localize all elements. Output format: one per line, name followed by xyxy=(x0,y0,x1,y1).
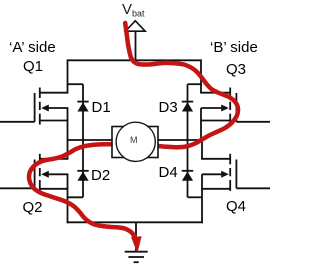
label D2 xyxy=(91,167,110,184)
current path arrowhead (red) xyxy=(131,236,142,253)
Vbat arrow head xyxy=(125,21,145,31)
label M (motor) xyxy=(130,135,138,145)
label D1 xyxy=(92,99,111,116)
wire Q3 source vertical / node B xyxy=(200,108,202,140)
wire Q1 source line xyxy=(40,120,69,122)
label Q2 xyxy=(23,199,43,216)
wire Q3 source line xyxy=(200,120,230,122)
wire D4 bottom stub xyxy=(188,196,203,198)
wire Vbat arrow shaft xyxy=(135,31,137,60)
transistor Q2 xyxy=(0,154,49,191)
label D3 xyxy=(159,99,178,116)
wire Q2 drain line xyxy=(40,158,69,160)
current path (red highlight) xyxy=(29,23,238,239)
label 'B' side xyxy=(210,39,258,56)
wire D4 vertical xyxy=(187,140,189,197)
diode D3 xyxy=(182,102,193,112)
wire bottom rail (source net) xyxy=(67,221,203,223)
wire D1 top stub xyxy=(68,83,84,85)
wire Q4 drain vertical xyxy=(201,139,203,159)
ground xyxy=(125,252,148,263)
label Q3 xyxy=(226,61,246,78)
wire Q2 source line xyxy=(40,188,69,190)
wire Q3 arrow line xyxy=(201,107,223,109)
wire Q4 source line xyxy=(201,188,230,190)
label Q1 xyxy=(23,58,43,75)
wire ground drop xyxy=(135,222,137,251)
wire Q3 drain line xyxy=(200,92,230,94)
label 'A' side xyxy=(9,39,56,56)
wire Q1 source vertical / node A out xyxy=(67,108,69,140)
wire Q1 drain line xyxy=(40,92,69,94)
diode D4 xyxy=(182,171,193,181)
wire Q4 arrow line xyxy=(202,173,223,175)
wire Q2 source vertical to bottom rail xyxy=(67,174,69,223)
label D4 xyxy=(159,164,178,181)
label Vbat xyxy=(122,1,145,19)
transistor Q1 xyxy=(0,88,49,125)
wire D1 vertical xyxy=(82,84,84,140)
label Q4 xyxy=(226,198,246,215)
wire motor row right (node B) xyxy=(157,139,202,141)
transistor Q4 xyxy=(221,154,270,191)
wire Q4 source vertical to bottom rail xyxy=(201,174,203,223)
wire Q4 drain line xyxy=(201,158,230,160)
wire Q2 drain vertical xyxy=(67,139,69,159)
diode D2 xyxy=(77,171,88,181)
wire motor row left (node A) xyxy=(68,139,114,141)
wire D3 top stub xyxy=(188,83,203,85)
motor U1 (DC motor) xyxy=(112,122,158,161)
wire D2 bottom stub xyxy=(67,196,83,198)
transistor Q3 xyxy=(221,88,270,125)
wire Q1 drain riser xyxy=(67,59,69,92)
wire top rail Vbat net xyxy=(68,59,202,61)
wire Q2 arrow line xyxy=(47,173,68,175)
diode D1 xyxy=(77,102,88,112)
wire D2 vertical xyxy=(82,140,84,197)
wire Q1 arrow line xyxy=(47,107,68,109)
wire D3 vertical xyxy=(187,84,189,140)
wire Q3 drain riser xyxy=(200,59,202,92)
